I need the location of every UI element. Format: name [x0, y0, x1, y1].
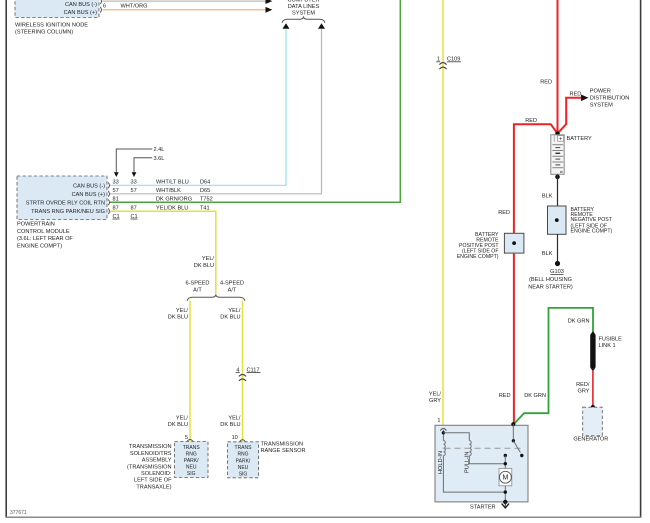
svg-text:BLK: BLK [542, 251, 553, 257]
svg-text:87: 87 [113, 206, 119, 212]
inline connector C117 [236, 367, 261, 381]
powertrain control module box [17, 176, 107, 220]
svg-text:SYSTEM: SYSTEM [292, 10, 315, 16]
computer data lines system label [287, 0, 319, 16]
wire DK GRN/ORG T752 (green) [110, 0, 400, 202]
mechanical dashed link [445, 447, 521, 449]
junction dot top of starter (red/green) [511, 422, 515, 426]
pull-in coil [469, 441, 471, 456]
label YEL/GRY [429, 391, 442, 404]
connector arc CAN BUS (-) [100, 0, 101, 4]
connector arcs PCM [108, 182, 109, 214]
svg-text:87: 87 [131, 206, 137, 212]
svg-text:33: 33 [113, 180, 119, 186]
svg-text:+: + [559, 136, 562, 142]
wire WHT/LT BLU D64 (cyan) [110, 29, 286, 186]
svg-text:YEL/: YEL/ [429, 391, 442, 397]
connector arc into range sensor box [240, 440, 246, 442]
switch pivot wire [512, 424, 514, 441]
hold-in coil [443, 441, 445, 456]
svg-text:TRANS RNG PARK/NEU SIG: TRANS RNG PARK/NEU SIG [31, 209, 105, 215]
circuit codes [200, 180, 213, 212]
switch contact dot left [504, 454, 507, 457]
svg-text:BLK: BLK [542, 193, 553, 199]
frame right border [640, 0, 642, 517]
wire RED positive post to starter [513, 253, 515, 424]
svg-text:YEL/: YEL/ [202, 256, 215, 262]
svg-text:YEL/: YEL/ [228, 308, 241, 314]
wire RED branch to positive post [514, 124, 558, 233]
wire pull-in to contact [469, 456, 505, 464]
svg-text:377671: 377671 [10, 510, 27, 516]
svg-text:PARK/: PARK/ [184, 458, 199, 464]
svg-text:YEL/: YEL/ [176, 415, 189, 421]
svg-text:RED: RED [525, 118, 537, 124]
svg-text:6-SPEED: 6-SPEED [186, 281, 210, 287]
wire motor to ground [504, 486, 506, 502]
svg-text:(3.6L: LEFT REAR OF: (3.6L: LEFT REAR OF [17, 236, 73, 242]
motor M [499, 469, 512, 486]
junction dot solenoid input [442, 431, 445, 434]
svg-text:T752: T752 [200, 197, 213, 203]
wire label YEL/DK BLU (main drop) [194, 256, 215, 269]
svg-text:NEU: NEU [238, 465, 249, 471]
svg-text:4-SPEED: 4-SPEED [220, 281, 244, 287]
svg-text:ENGINE COMPT): ENGINE COMPT) [17, 243, 62, 249]
svg-text:CAN BUS (+): CAN BUS (+) [72, 192, 106, 198]
wire YEL/DK BLU 6-speed branch [189, 301, 191, 442]
svg-text:ENGINE COMPT): ENGINE COMPT) [571, 229, 613, 235]
wire WHT/BLK D65 (gray) [110, 29, 322, 194]
svg-text:M: M [502, 475, 508, 482]
svg-text:81: 81 [113, 197, 119, 203]
label YEL/DK BLU right branch lower [220, 415, 241, 428]
svg-text:A/T: A/T [193, 287, 202, 293]
svg-text:DK GRN: DK GRN [524, 393, 546, 399]
svg-text:DK BLU: DK BLU [194, 263, 214, 269]
svg-text:57: 57 [113, 188, 119, 194]
svg-text:LINK 1: LINK 1 [599, 343, 616, 349]
ground G103 [528, 261, 573, 291]
junction dot battery negative [555, 175, 560, 180]
label YEL/DK BLU right branch upper [220, 308, 241, 321]
transmission range sensor outside label [261, 441, 306, 454]
inline connector C109 [436, 57, 461, 70]
svg-text:RED: RED [498, 210, 510, 216]
wire RED main vertical from top [557, 0, 559, 134]
svg-text:10: 10 [232, 435, 238, 441]
svg-text:RED: RED [540, 79, 552, 85]
connector arc into solenoid box [187, 439, 193, 441]
svg-text:6: 6 [103, 3, 106, 9]
ground symbol starter [502, 502, 509, 508]
svg-text:TRANS: TRANS [235, 445, 253, 451]
pin numbers column 1 [113, 180, 120, 220]
6-SPEED A/T label [186, 281, 210, 294]
svg-text:STARTER: STARTER [470, 504, 496, 510]
connector arc CAN BUS (+) [100, 7, 101, 13]
svg-text:33: 33 [131, 180, 137, 186]
svg-text:PARK/: PARK/ [236, 458, 251, 464]
svg-text:CONTROL MODULE: CONTROL MODULE [17, 229, 70, 235]
fusible link 1 [590, 331, 595, 371]
wire RED/GRY to generator [592, 371, 594, 408]
battery remote positive post label [457, 232, 500, 260]
svg-text:T41: T41 [200, 206, 210, 212]
wire to pull-in coil [443, 433, 469, 441]
pin numbers column 2 [131, 180, 138, 220]
svg-text:TRANSMISSION: TRANSMISSION [129, 444, 172, 450]
svg-text:DK GRN: DK GRN [568, 318, 590, 324]
wire WHT CAN BUS (-) [103, 0, 267, 2]
powertrain control module label [17, 222, 73, 250]
svg-text:POWER: POWER [590, 88, 611, 94]
svg-text:TRANSAXLE): TRANSAXLE) [136, 484, 171, 490]
svg-text:1: 1 [437, 418, 440, 424]
arrow CAN BUS (-) [266, 0, 273, 4]
junction dot pull-in contact [504, 462, 507, 465]
svg-text:LEFT SIDE OF: LEFT SIDE OF [134, 478, 172, 484]
switch contact dot right [520, 454, 523, 457]
svg-text:TRANS: TRANS [183, 445, 201, 451]
wire BLK battery to negative post [557, 174, 559, 206]
battery remote negative post box [548, 206, 567, 234]
svg-text:WHT/LT BLU: WHT/LT BLU [156, 180, 189, 186]
svg-text:2.4L: 2.4L [154, 147, 165, 153]
starter box [435, 425, 528, 502]
svg-text:WHT/ORG: WHT/ORG [120, 4, 147, 10]
frame left border [5, 0, 7, 517]
frame bottom border [5, 516, 641, 518]
battery remote negative post label [571, 207, 613, 235]
svg-text:POWERTRAIN: POWERTRAIN [17, 222, 55, 228]
arrow up to computer data lines (left) [283, 23, 290, 29]
svg-text:DK BLU: DK BLU [168, 315, 188, 321]
svg-text:YEL/: YEL/ [228, 415, 241, 421]
svg-text:DISTRIBUTION: DISTRIBUTION [590, 95, 629, 101]
connector arc starter input [440, 429, 446, 431]
arrow up to computer data lines (right) [318, 23, 325, 29]
svg-text:NEAR STARTER): NEAR STARTER) [528, 285, 573, 291]
svg-text:3.6L: 3.6L [154, 156, 165, 162]
arrow to power distribution [581, 95, 588, 102]
svg-text:A/T: A/T [228, 287, 237, 293]
transmission range sensor box [228, 442, 259, 478]
svg-text:SIG: SIG [239, 472, 248, 478]
svg-text:GRY: GRY [577, 389, 589, 395]
2.4L callout [114, 147, 164, 177]
wire RED branch to power distribution [558, 98, 583, 134]
svg-text:DK BLU: DK BLU [220, 315, 240, 321]
switch lever [513, 441, 520, 453]
4-SPEED A/T label [220, 281, 244, 294]
svg-text:FUSIBLE: FUSIBLE [599, 336, 623, 342]
svg-text:SOLENOID/TRS: SOLENOID/TRS [130, 451, 172, 457]
svg-text:ASSEMBLY: ASSEMBLY [142, 458, 172, 464]
svg-text:D64: D64 [200, 180, 210, 186]
wire contact to motor [504, 456, 506, 469]
svg-text:SYSTEM: SYSTEM [590, 102, 613, 108]
wireless ignition node box [15, 0, 99, 18]
wire WHT/ORG CAN BUS (+) [103, 9, 267, 11]
svg-text:CAN BUS (+): CAN BUS (+) [64, 10, 98, 16]
transmission solenoid box [175, 442, 209, 478]
junction dot motor bottom [504, 490, 507, 493]
battery B1 [551, 135, 564, 175]
svg-text:CAN BUS (-): CAN BUS (-) [65, 2, 97, 8]
wire color labels [156, 180, 192, 212]
switch pivot dot [512, 439, 515, 442]
brace under computer data lines [282, 16, 325, 22]
generator box [583, 407, 603, 436]
svg-text:RED/: RED/ [576, 382, 590, 388]
svg-text:NEGATIVE POST: NEGATIVE POST [571, 217, 613, 223]
svg-text:TRANSMISSION: TRANSMISSION [261, 441, 304, 447]
svg-text:BATTERY: BATTERY [567, 136, 593, 142]
wire YEL/DK BLU T41 (yellow) [110, 211, 216, 294]
wire YEL/GRY vertical to starter [442, 0, 444, 425]
wire YEL/DK BLU 4-speed branch [242, 301, 244, 442]
label YEL/DK BLU left branch upper [168, 308, 189, 321]
svg-text:YEL/: YEL/ [176, 308, 189, 314]
svg-text:RED: RED [570, 91, 582, 97]
svg-text:57: 57 [131, 188, 137, 194]
svg-text:SIG: SIG [187, 471, 196, 477]
battery remote positive post box [504, 233, 524, 253]
svg-text:(TRANSMISSION: (TRANSMISSION [127, 464, 171, 470]
wire DK GRN starter to fusible link [514, 308, 593, 424]
wire solenoid input [442, 430, 444, 441]
svg-text:RANGE SENSOR: RANGE SENSOR [261, 448, 306, 454]
svg-text:RNG: RNG [186, 451, 197, 457]
power distribution system label [590, 88, 629, 108]
svg-text:GENERATOR: GENERATOR [573, 437, 608, 443]
svg-text:DK BLU: DK BLU [220, 422, 240, 428]
label YEL/DK BLU left branch lower [168, 415, 189, 428]
svg-text:(STEERING COLUMN): (STEERING COLUMN) [15, 29, 73, 35]
junction dot generator [591, 405, 595, 409]
3.6L callout [132, 156, 165, 177]
junction dot battery positive [555, 132, 560, 137]
svg-text:D65: D65 [200, 188, 210, 194]
svg-text:SOLENOID:: SOLENOID: [141, 471, 172, 477]
wireless ignition node label [15, 23, 88, 36]
svg-text:RED: RED [499, 393, 511, 399]
svg-text:NEU: NEU [186, 465, 197, 471]
svg-text:CAN BUS (-): CAN BUS (-) [73, 183, 105, 189]
svg-text:WHT/BLK: WHT/BLK [156, 188, 181, 194]
svg-text:GRY: GRY [429, 398, 441, 404]
wire BLK negative post to G103 [557, 234, 559, 263]
svg-text:ENGINE COMPT): ENGINE COMPT) [457, 254, 499, 260]
wire hold-in to motor bottom [443, 456, 505, 492]
svg-text:5: 5 [185, 435, 188, 441]
fusible link label [599, 336, 623, 349]
split brace [187, 294, 245, 300]
svg-text:DK BLU: DK BLU [168, 422, 188, 428]
svg-text:STRTR OVRDE RLY COIL RTN: STRTR OVRDE RLY COIL RTN [26, 200, 105, 206]
svg-text:(BELL HOUSING: (BELL HOUSING [529, 277, 572, 283]
svg-text:DATA LINES: DATA LINES [288, 4, 320, 10]
junction dot box bottom [503, 500, 507, 504]
svg-text:YEL/DK BLU: YEL/DK BLU [156, 206, 188, 212]
svg-text:RNG: RNG [237, 452, 248, 458]
svg-text:DK GRN/ORG: DK GRN/ORG [156, 197, 192, 203]
arrow CAN BUS (+) [266, 7, 273, 13]
label RED/GRY [576, 382, 590, 395]
transmission solenoid outside label [127, 444, 172, 490]
svg-text:WIRELESS IGNITION NODE: WIRELESS IGNITION NODE [15, 23, 88, 29]
